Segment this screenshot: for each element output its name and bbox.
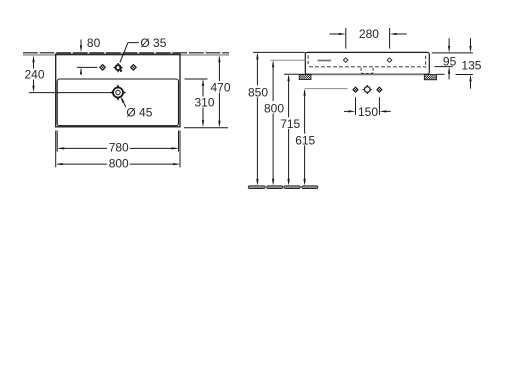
svg-text:280: 280 xyxy=(359,27,379,41)
svg-text:80: 80 xyxy=(87,36,101,50)
svg-text:310: 310 xyxy=(195,95,215,109)
svg-text:800: 800 xyxy=(264,101,284,115)
svg-text:780: 780 xyxy=(109,141,129,155)
svg-text:850: 850 xyxy=(248,85,268,99)
svg-text:Ø 45: Ø 45 xyxy=(126,105,152,119)
svg-text:135: 135 xyxy=(461,58,481,72)
svg-text:240: 240 xyxy=(25,67,45,81)
svg-text:470: 470 xyxy=(211,81,231,95)
svg-text:715: 715 xyxy=(280,117,300,131)
svg-text:800: 800 xyxy=(109,156,129,170)
svg-text:95: 95 xyxy=(443,55,457,69)
svg-text:Ø 35: Ø 35 xyxy=(140,36,166,50)
svg-text:615: 615 xyxy=(295,133,315,147)
svg-text:150: 150 xyxy=(358,105,378,119)
